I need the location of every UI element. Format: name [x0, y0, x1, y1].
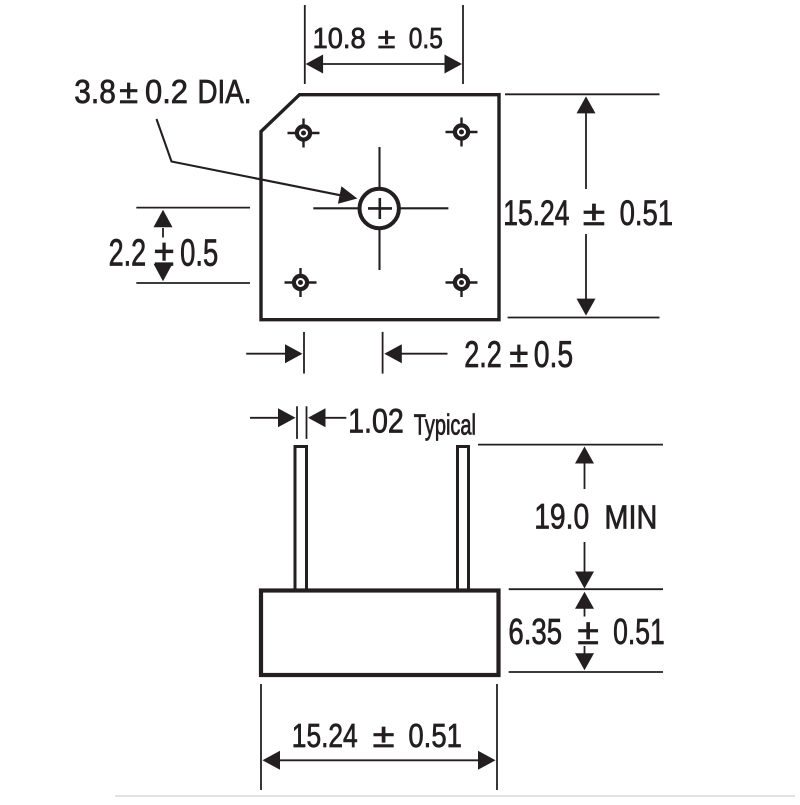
- svg-text:±: ±: [119, 73, 138, 110]
- svg-text:2.2: 2.2: [109, 232, 147, 274]
- svg-text:0.2: 0.2: [145, 73, 188, 110]
- svg-text:3.8: 3.8: [74, 73, 116, 110]
- svg-text:1.02: 1.02: [348, 403, 404, 441]
- svg-text:0.5: 0.5: [534, 334, 573, 375]
- svg-text:15.24: 15.24: [292, 717, 358, 755]
- svg-text:19.0: 19.0: [534, 497, 589, 537]
- svg-text:2.2: 2.2: [464, 334, 502, 375]
- svg-text:15.24: 15.24: [503, 194, 569, 233]
- svg-text:±: ±: [509, 334, 528, 375]
- svg-text:0.5: 0.5: [180, 232, 218, 274]
- svg-text:MIN: MIN: [604, 499, 657, 536]
- svg-text:0.51: 0.51: [620, 194, 674, 233]
- svg-text:±: ±: [373, 717, 395, 755]
- svg-text:Typical: Typical: [414, 409, 476, 441]
- svg-text:±: ±: [577, 611, 599, 652]
- svg-text:0.51: 0.51: [408, 717, 462, 755]
- svg-text:6.35: 6.35: [508, 611, 562, 652]
- svg-text:±: ±: [583, 194, 605, 233]
- svg-text:±: ±: [154, 232, 174, 274]
- svg-text:10.8: 10.8: [313, 23, 366, 55]
- svg-text:0.51: 0.51: [613, 611, 665, 652]
- svg-text:±: ±: [378, 23, 396, 55]
- svg-text:0.5: 0.5: [409, 23, 443, 55]
- svg-text:DIA.: DIA.: [198, 73, 252, 110]
